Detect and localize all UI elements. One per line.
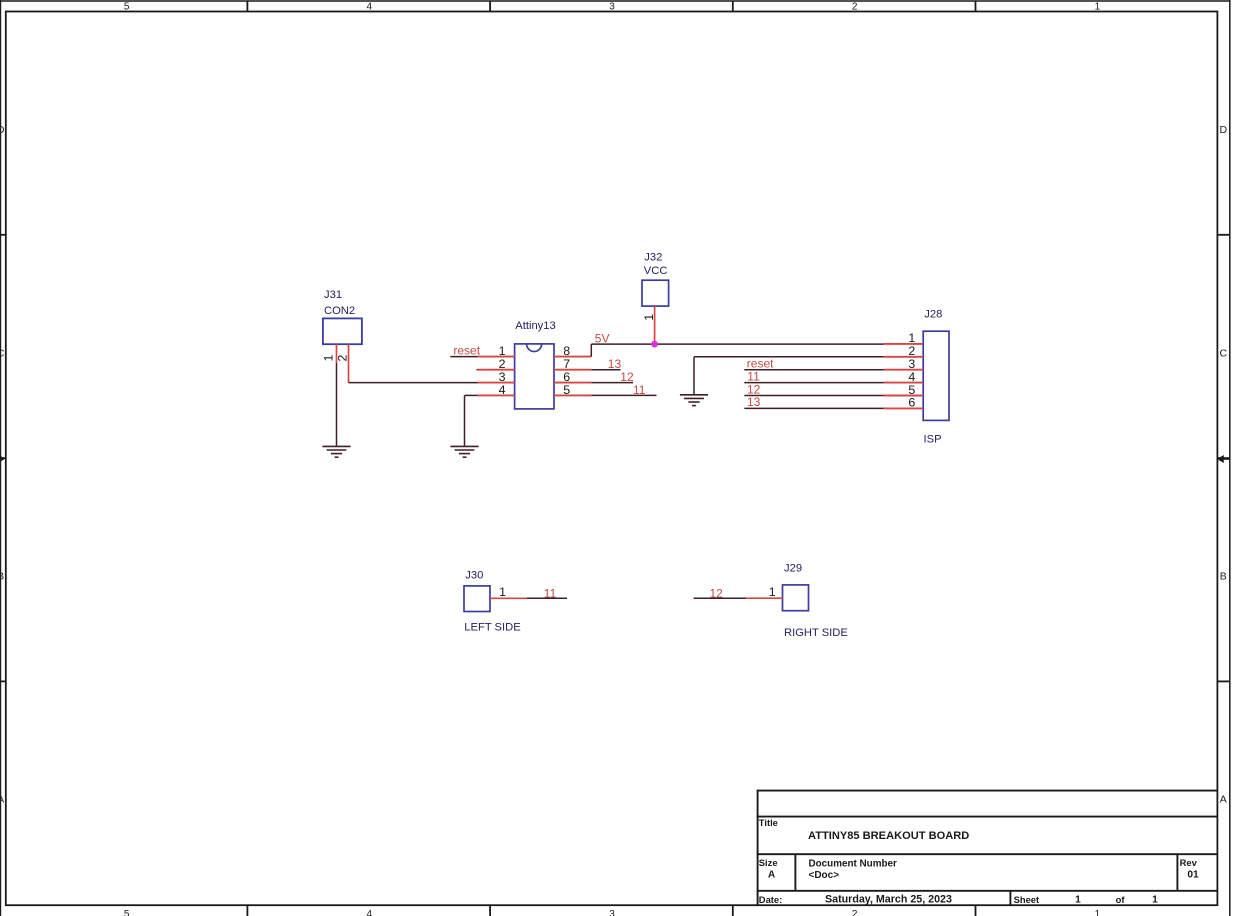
svg-text:5: 5 — [124, 2, 130, 13]
svg-text:Document Number: Document Number — [809, 859, 897, 870]
svg-text:4: 4 — [499, 383, 506, 397]
svg-text:5: 5 — [908, 383, 915, 397]
svg-text:1: 1 — [908, 331, 915, 345]
svg-text:C: C — [1220, 347, 1228, 359]
svg-text:1: 1 — [499, 344, 506, 358]
svg-text:D: D — [1220, 124, 1228, 136]
svg-text:6: 6 — [908, 396, 915, 410]
svg-text:of: of — [1116, 894, 1126, 905]
svg-text:7: 7 — [563, 357, 570, 371]
svg-text:11: 11 — [633, 383, 646, 397]
svg-text:5: 5 — [563, 383, 570, 397]
svg-text:D: D — [0, 124, 5, 136]
svg-text:4: 4 — [367, 2, 373, 13]
svg-text:reset: reset — [453, 344, 480, 358]
svg-text:2: 2 — [852, 909, 858, 916]
svg-text:J32: J32 — [644, 251, 662, 263]
svg-text:A: A — [1220, 794, 1227, 806]
svg-text:C: C — [0, 347, 5, 359]
svg-text:8: 8 — [563, 344, 570, 358]
svg-text:3: 3 — [908, 357, 915, 371]
svg-text:reset: reset — [747, 356, 774, 370]
svg-text:Attiny13: Attiny13 — [515, 320, 555, 332]
svg-text:1: 1 — [769, 585, 776, 599]
svg-text:5V: 5V — [595, 331, 610, 345]
svg-text:2: 2 — [908, 344, 915, 358]
svg-text:Title: Title — [759, 817, 778, 828]
svg-text:ATTINY85 BREAKOUT BOARD: ATTINY85 BREAKOUT BOARD — [808, 830, 969, 842]
svg-text:5: 5 — [124, 909, 130, 916]
svg-text:CON2: CON2 — [324, 305, 355, 317]
svg-text:1: 1 — [1152, 895, 1158, 906]
svg-text:3: 3 — [609, 2, 615, 13]
svg-text:11: 11 — [544, 586, 557, 600]
svg-text:4: 4 — [908, 370, 915, 384]
svg-text:RIGHT SIDE: RIGHT SIDE — [784, 627, 848, 639]
svg-text:1: 1 — [1075, 895, 1081, 906]
svg-text:VCC: VCC — [644, 265, 668, 277]
svg-text:1: 1 — [322, 355, 336, 362]
svg-text:1: 1 — [642, 314, 656, 321]
svg-text:01: 01 — [1187, 870, 1199, 881]
svg-text:2: 2 — [336, 355, 350, 362]
svg-text:12: 12 — [710, 586, 724, 600]
svg-text:Sheet: Sheet — [1014, 894, 1040, 905]
svg-text:J31: J31 — [324, 289, 342, 301]
svg-text:3: 3 — [609, 909, 615, 916]
svg-text:Saturday, March 25, 2023: Saturday, March 25, 2023 — [825, 894, 952, 906]
svg-text:12: 12 — [747, 382, 761, 396]
svg-text:J29: J29 — [784, 562, 802, 574]
svg-text:Date:: Date: — [759, 894, 782, 905]
svg-text:12: 12 — [620, 370, 634, 384]
svg-text:ISP: ISP — [924, 434, 942, 446]
svg-text:<Doc>: <Doc> — [809, 870, 840, 881]
svg-text:11: 11 — [747, 369, 760, 383]
svg-text:A: A — [0, 794, 4, 806]
svg-text:1: 1 — [1095, 2, 1101, 13]
svg-text:Size: Size — [759, 857, 778, 868]
svg-text:13: 13 — [608, 357, 622, 371]
svg-text:1: 1 — [499, 585, 506, 599]
svg-text:4: 4 — [367, 909, 373, 916]
svg-text:LEFT SIDE: LEFT SIDE — [464, 621, 520, 633]
svg-text:Rev: Rev — [1180, 857, 1198, 868]
svg-text:J28: J28 — [924, 309, 942, 321]
svg-text:A: A — [768, 870, 776, 881]
svg-text:2: 2 — [499, 357, 506, 371]
svg-text:13: 13 — [747, 395, 761, 409]
svg-text:B: B — [0, 570, 4, 582]
svg-text:2: 2 — [852, 2, 858, 13]
svg-text:B: B — [1220, 570, 1227, 582]
svg-text:J30: J30 — [465, 570, 483, 582]
svg-text:1: 1 — [1095, 909, 1101, 916]
